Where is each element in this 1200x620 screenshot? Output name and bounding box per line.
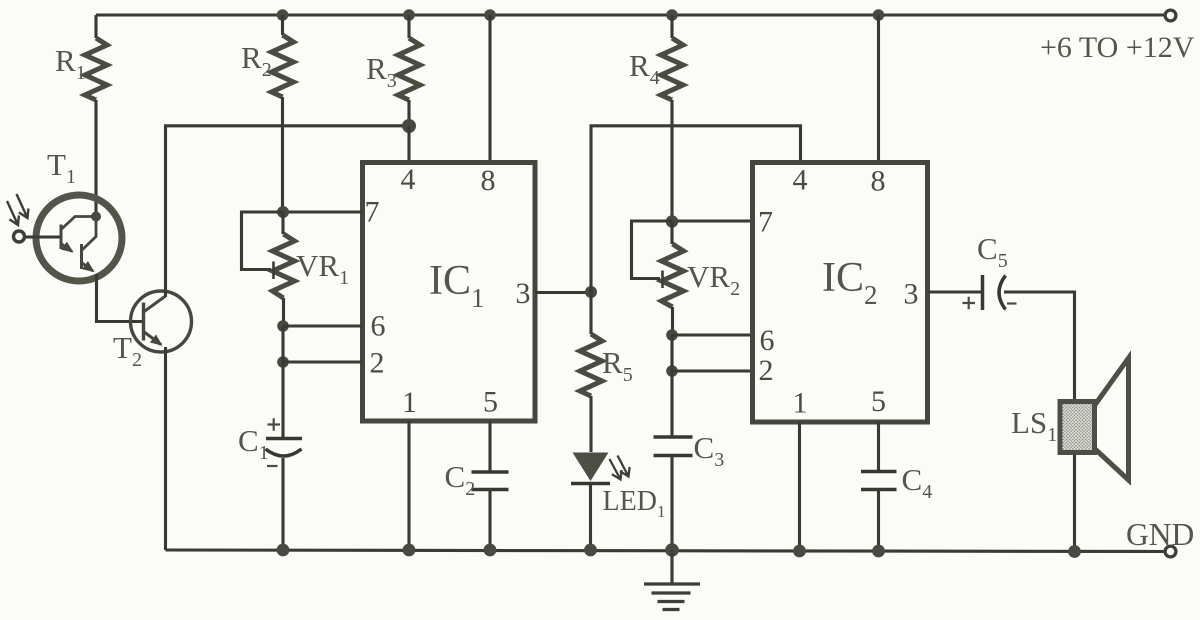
- wire IC1 pin1 to rail: [407, 421, 410, 550]
- node IC2 pin6 junction: [666, 329, 678, 341]
- capacitor C3: [654, 437, 693, 456]
- wire T1 emitter to T2 base: [97, 274, 143, 322]
- LED1: [571, 453, 630, 484]
- svg-text:6: 6: [371, 310, 386, 343]
- capacitor C5 electrolytic: [963, 275, 1017, 310]
- node rail pin1: [403, 544, 416, 557]
- wire IC1 pin7 to VR1: [283, 210, 363, 213]
- terminal GND: [1165, 546, 1176, 557]
- capacitor C2: [472, 472, 509, 490]
- terminal +V: [1165, 10, 1176, 21]
- T1 base bar 1: [60, 225, 63, 250]
- C5 plus sign: [963, 297, 976, 309]
- potentiometer VR2: [632, 221, 684, 335]
- wire IC2 pin7 to VR2: [672, 219, 753, 222]
- svg-text:3: 3: [516, 277, 531, 310]
- capacitor C4: [861, 472, 897, 490]
- svg-text:8: 8: [871, 165, 886, 198]
- op IC1 555 box: [363, 163, 536, 422]
- svg-text:5: 5: [871, 385, 886, 418]
- resistor R4: [661, 15, 683, 221]
- C5 minus sign: [1007, 302, 1017, 304]
- T1 input light arrows: [7, 201, 19, 225]
- wire base lead: [26, 235, 60, 238]
- svg-text:3: 3: [904, 278, 919, 311]
- terminal T1 base input: [14, 231, 25, 242]
- wire to IC2 pin2: [672, 369, 753, 372]
- T1 base bar 2: [80, 244, 83, 269]
- T1 emitter 1 arrow: [61, 244, 72, 252]
- resistor R5: [580, 292, 602, 452]
- wire IC1 pin8: [488, 15, 491, 162]
- node reset junction: [402, 119, 416, 133]
- T1 collector 2: [82, 219, 97, 251]
- svg-text:8: 8: [481, 164, 496, 197]
- resistor R1: [85, 15, 107, 216]
- C1 minus sign: [267, 465, 278, 467]
- node T1 collector dot: [91, 212, 101, 222]
- node rail C1: [277, 544, 290, 557]
- phototransistor T1: [7, 194, 122, 281]
- transistor T2: [131, 291, 192, 352]
- VR2 wiper loop: [632, 221, 673, 279]
- node pin6 junction: [277, 320, 289, 332]
- svg-text:1: 1: [793, 387, 808, 420]
- node top rail R4: [666, 9, 678, 21]
- potentiometer VR1: [242, 212, 295, 326]
- svg-text:4: 4: [401, 163, 416, 196]
- wire top +V rail: [96, 13, 1164, 16]
- T2 emitter arrow: [144, 332, 162, 345]
- wire C3 to rail: [670, 456, 673, 551]
- VR1 wiper bar: [272, 262, 275, 280]
- T2 base bar: [142, 303, 145, 341]
- node pin2 junction: [277, 356, 289, 368]
- node rail C2: [484, 544, 497, 557]
- op IC2 555 box: [753, 163, 928, 423]
- svg-text:1: 1: [402, 386, 417, 419]
- node top rail R2: [277, 9, 289, 21]
- C1 plus sign: [268, 418, 281, 430]
- wire IC2 pin1 to rail: [798, 422, 801, 551]
- svg-text:6: 6: [760, 324, 775, 357]
- wire T2 emitter down to ground rail: [164, 347, 167, 550]
- LED1 light arrows: [610, 459, 622, 480]
- wire C1 to rail: [281, 458, 284, 550]
- ground symbol: [644, 550, 700, 610]
- svg-text:2: 2: [370, 347, 385, 380]
- VR1 wiper loop: [242, 212, 284, 270]
- svg-text:GND: GND: [1126, 517, 1194, 552]
- svg-text:7: 7: [365, 196, 380, 229]
- svg-text:4: 4: [793, 164, 808, 197]
- wire to IC1 pin4: [407, 126, 410, 162]
- wire IC1 pin5 to C2: [488, 421, 491, 472]
- wire C4 to rail: [877, 490, 880, 552]
- T1 collector 1: [61, 217, 94, 230]
- node rail ground junction: [665, 543, 679, 557]
- resistor R2: [272, 15, 294, 212]
- svg-text:2: 2: [759, 354, 774, 387]
- wire bottom ground rail: [166, 550, 1165, 552]
- node VR1 top: [277, 206, 289, 218]
- wire output up and across to IC2 pin4: [591, 126, 801, 292]
- wire to IC1 pin2: [283, 360, 363, 363]
- node VR2 top: [666, 215, 678, 227]
- node output junction: [585, 286, 597, 298]
- wire IC2 pin3 to C5: [928, 290, 983, 293]
- node rail speaker: [1068, 545, 1081, 558]
- wire C2 to rail: [488, 490, 491, 551]
- node top rail R3: [403, 9, 415, 21]
- svg-text:LED1: LED1: [603, 486, 666, 521]
- T2 collector: [144, 296, 166, 312]
- svg-text:5: 5: [483, 386, 498, 419]
- node rail LED: [584, 544, 597, 557]
- capacitor C1 electrolytic: [266, 418, 303, 466]
- wire to IC2 pin6: [672, 333, 753, 336]
- node top rail IC2 pin8: [873, 9, 885, 21]
- svg-text:7: 7: [758, 206, 773, 239]
- wire T2 collector up to reset line: [166, 126, 410, 297]
- wire IC1 pin3 output: [535, 291, 591, 294]
- node rail IC2 pin1: [793, 545, 806, 558]
- wire VR1 to C1: [281, 326, 284, 438]
- VR2 wiper bar: [661, 271, 664, 289]
- wire IC2 pin8: [877, 15, 880, 162]
- loudspeaker LS1: [1060, 358, 1129, 480]
- wire to IC1 pin6: [283, 324, 363, 327]
- svg-text:+6 TO +12V: +6 TO +12V: [1040, 31, 1195, 64]
- node IC2 pin2 junction: [666, 365, 678, 377]
- node rail C4: [872, 545, 885, 558]
- wire VR2 to C3: [670, 335, 673, 437]
- wire LED to rail: [589, 484, 592, 550]
- T1 emitter 2 arrow: [82, 263, 94, 272]
- node top rail IC1 pin8: [484, 9, 496, 21]
- wire IC2 pin5 to C4: [877, 422, 880, 472]
- resistor R3: [398, 15, 420, 126]
- wire C5 to speaker and down to rail: [1004, 292, 1075, 552]
